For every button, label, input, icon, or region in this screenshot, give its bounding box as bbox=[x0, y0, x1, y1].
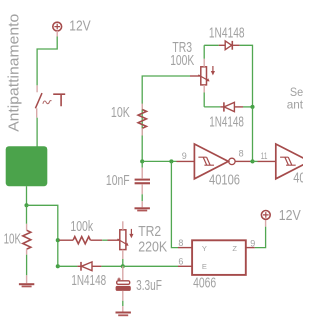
svg-text:10K: 10K bbox=[111, 105, 130, 121]
svg-text:1N4148: 1N4148 bbox=[209, 114, 244, 130]
svg-text:11: 11 bbox=[261, 151, 268, 161]
wire node G down to 4066 pin Y bbox=[171, 161, 192, 247]
op-amp U1B schmitt inverter 40106 (clipped) bbox=[276, 144, 310, 179]
pin number 9 (4066 Z) bbox=[250, 238, 255, 248]
label 220K bbox=[138, 240, 167, 256]
wire TR3 bottom loop bbox=[204, 93, 220, 107]
wire top diode to right rail bbox=[240, 45, 253, 107]
wire TR3 top loop bbox=[204, 45, 219, 59]
label TR2 bbox=[138, 224, 161, 240]
pin name Z bbox=[232, 244, 237, 253]
label 40106 bbox=[209, 172, 240, 188]
ground under 3.3uF bbox=[116, 312, 131, 317]
wire node C to diode bbox=[58, 265, 78, 267]
label 1N4148 top bbox=[209, 26, 245, 42]
svg-text:TR2: TR2 bbox=[138, 224, 161, 240]
wire 100k to TR2 bbox=[102, 239, 107, 241]
svg-text:Z: Z bbox=[232, 244, 237, 253]
svg-text:6: 6 bbox=[178, 256, 183, 266]
svg-text:10nF: 10nF bbox=[106, 173, 130, 189]
svg-text:100K: 100K bbox=[170, 53, 194, 69]
trimmer TR3 bbox=[190, 59, 215, 93]
resistor 10K middle bbox=[138, 104, 146, 136]
diode D2 1N4148 bottom bbox=[220, 102, 243, 111]
svg-text:9: 9 bbox=[250, 238, 255, 248]
svg-text:Antipattinamento: Antipattinamento bbox=[7, 14, 23, 132]
svg-text:3.3uF: 3.3uF bbox=[136, 278, 162, 294]
resistor 10K left bbox=[23, 205, 31, 275]
ground under 10nF bbox=[135, 207, 150, 211]
label 1N4148 bottom bbox=[209, 114, 244, 130]
svg-text:antipattinamento: antipattinamento bbox=[287, 98, 303, 112]
label 3.3uF bbox=[136, 278, 162, 294]
junction node G bbox=[169, 159, 173, 163]
wire 12V to switch bbox=[37, 37, 57, 86]
svg-text:40106: 40106 bbox=[209, 172, 240, 188]
pin name E bbox=[202, 262, 207, 271]
label antipattinamento (clipped) bbox=[287, 98, 320, 112]
wire switch to load box bbox=[36, 118, 38, 147]
label 100k bbox=[70, 219, 93, 235]
capacitor C1 10nF bbox=[135, 161, 150, 207]
wire E pin lead bbox=[178, 265, 192, 267]
pin number 8 (inverter output) bbox=[239, 149, 244, 159]
label 10K left bbox=[4, 232, 22, 248]
switch S1 (relay contact) bbox=[35, 85, 65, 117]
junction node B (100k tap) bbox=[56, 238, 60, 242]
junction node C (diode row left) bbox=[56, 264, 60, 268]
trimmer TR2 bbox=[108, 221, 134, 266]
diode 1N4148 bottom-left bbox=[77, 262, 101, 271]
label 10nF bbox=[106, 173, 130, 189]
wire right rail down to inverter output bbox=[252, 107, 254, 161]
pin name Y bbox=[202, 244, 207, 253]
wire junction to inverter 2 bbox=[253, 160, 276, 162]
svg-text:40106: 40106 bbox=[293, 171, 303, 187]
svg-text:8: 8 bbox=[178, 238, 183, 248]
pin number 6 (4066 E) bbox=[178, 256, 183, 266]
wire 4066 Z pin to 12V bbox=[246, 227, 266, 248]
label Sensore (clipped) bbox=[290, 85, 320, 99]
svg-text:8: 8 bbox=[239, 149, 244, 159]
svg-text:4066: 4066 bbox=[193, 275, 216, 291]
wire node A right and down bbox=[27, 205, 58, 266]
supply +12V top-left bbox=[53, 22, 62, 36]
junction node D bbox=[121, 264, 125, 268]
label 12V top-left bbox=[69, 18, 91, 35]
wire TR3 wiper run bbox=[142, 76, 190, 161]
junction node H bbox=[250, 159, 254, 163]
load block (green box) bbox=[6, 146, 48, 186]
svg-text:12V: 12V bbox=[69, 18, 91, 35]
resistor 100k bbox=[59, 237, 102, 244]
svg-text:220K: 220K bbox=[138, 240, 167, 256]
svg-text:10K: 10K bbox=[4, 232, 22, 248]
svg-text:E: E bbox=[202, 262, 207, 271]
wire osc input to inverter pin 9 bbox=[142, 160, 194, 162]
capacitor C2 3.3uF electrolytic bbox=[116, 266, 131, 311]
junction node F bbox=[250, 105, 254, 109]
label TR3 bbox=[172, 40, 192, 56]
pin number 9 (inverter input) bbox=[182, 151, 187, 161]
svg-text:1N4148: 1N4148 bbox=[71, 273, 106, 289]
wire bottom diode to right rail bbox=[243, 106, 253, 108]
label 40106 second (clipped) bbox=[293, 171, 320, 187]
supply +12V bottom-right bbox=[261, 211, 270, 227]
pin number 11 (inverter 2 input) bbox=[261, 151, 268, 161]
wire output to junction bbox=[250, 160, 253, 162]
label 10K middle bbox=[111, 105, 130, 121]
svg-text:Y: Y bbox=[202, 244, 207, 253]
svg-text:12V: 12V bbox=[279, 207, 302, 224]
svg-text:1N4148: 1N4148 bbox=[209, 26, 245, 42]
svg-text:100k: 100k bbox=[70, 219, 93, 235]
wire diode to node D bbox=[101, 265, 122, 267]
label 4066 bbox=[193, 275, 216, 291]
label Antipattinamento bbox=[7, 14, 23, 132]
analog switch U2 4066 bbox=[192, 240, 246, 275]
ground under 10K left bbox=[19, 275, 34, 287]
pin number 8 (4066 Y) bbox=[178, 238, 183, 248]
label 12V bottom-right bbox=[279, 207, 302, 224]
wire node D to 4066 pin E bbox=[123, 265, 178, 267]
diode D1 1N4148 top bbox=[219, 41, 240, 50]
junction node A bbox=[24, 203, 28, 207]
op-amp U1A schmitt inverter 40106 bbox=[194, 144, 250, 179]
label 1N4148 bottom-left bbox=[71, 273, 106, 289]
wire box bottom to node bbox=[26, 186, 28, 205]
svg-text:9: 9 bbox=[182, 151, 187, 161]
junction node E (osc input) bbox=[140, 159, 144, 163]
label 100K bbox=[170, 53, 194, 69]
